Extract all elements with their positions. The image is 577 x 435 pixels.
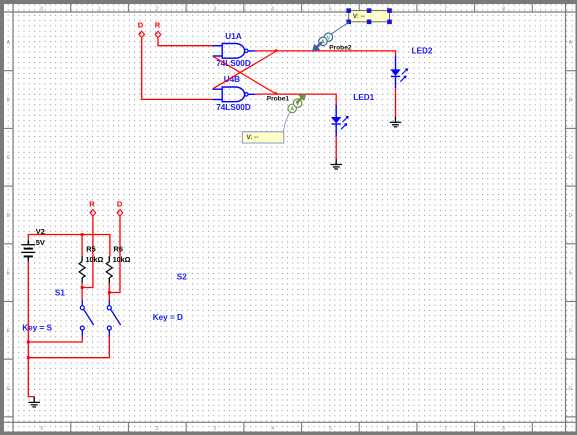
probe Probe1 (voltage readout box) [242, 93, 306, 143]
svg-text:A: A [290, 107, 294, 113]
svg-text:5: 5 [329, 426, 332, 432]
svg-text:Probe2: Probe2 [329, 44, 352, 51]
op NAND gate U4B 74LS00D [213, 75, 255, 112]
svg-text:0: 0 [41, 426, 44, 432]
wire diagonal feedback U1A input to Qbar [213, 56, 278, 94]
svg-text:D: D [138, 21, 144, 30]
ground (main) [28, 397, 40, 407]
svg-text:3: 3 [214, 426, 217, 432]
svg-text:10kΩ: 10kΩ [113, 255, 131, 264]
svg-text:F: F [7, 328, 10, 334]
svg-text:R5: R5 [86, 245, 95, 254]
wire V2 plus to R5/R6 tops [28, 235, 110, 257]
diode LED2 [390, 47, 433, 88]
ground (LED2) [390, 116, 402, 126]
svg-text:R: R [155, 21, 161, 30]
junction R5/R node [81, 286, 84, 289]
wire V2 minus to ground [28, 262, 34, 397]
wire R to U1A input [158, 38, 213, 46]
svg-text:LED2: LED2 [412, 47, 433, 56]
node D bottom connector [117, 199, 123, 216]
svg-text:Key = S: Key = S [22, 324, 52, 333]
svg-text:G: G [568, 386, 572, 392]
node R bottom connector [89, 199, 95, 216]
svg-text:G: G [6, 386, 10, 392]
switch S1 Key = S [22, 288, 93, 337]
svg-text:0: 0 [41, 6, 44, 12]
wire D connector to R6 node [109, 216, 120, 292]
svg-text:10kΩ: 10kΩ [86, 255, 104, 264]
svg-text:6: 6 [387, 426, 390, 432]
resistor R6 10kOhm [106, 245, 130, 284]
svg-text:S2: S2 [177, 272, 187, 281]
svg-text:V: --: V: -- [353, 13, 365, 20]
resistor R5 10kOhm [79, 245, 103, 284]
svg-text:1: 1 [98, 426, 101, 432]
node R top connector [155, 21, 161, 38]
svg-text:5: 5 [329, 6, 332, 12]
wire R5 top lead [81, 235, 83, 257]
node D top connector [138, 21, 145, 38]
svg-text:S1: S1 [55, 288, 65, 297]
svg-text:2: 2 [156, 6, 159, 12]
svg-text:3: 3 [214, 6, 217, 12]
junction R5 top [81, 233, 84, 236]
svg-text:2: 2 [156, 426, 159, 432]
svg-text:1: 1 [98, 6, 101, 12]
wire D to U4B input [142, 38, 213, 100]
svg-text:D: D [6, 213, 10, 219]
wire U1A output to LED2 [255, 51, 396, 57]
wire diagonal feedback Q to U4B input [213, 49, 279, 89]
diode LED1 [331, 93, 375, 136]
wire S2 to ground rail [28, 337, 109, 358]
svg-text:D: D [117, 199, 123, 208]
svg-text:74LS00D: 74LS00D [216, 59, 251, 68]
svg-text:8: 8 [502, 6, 505, 12]
svg-text:4: 4 [271, 426, 274, 432]
svg-text:LED1: LED1 [353, 93, 374, 102]
svg-text:8: 8 [502, 426, 505, 432]
wire LED1 to ground [335, 136, 337, 159]
svg-text:R6: R6 [114, 245, 123, 254]
svg-text:V: --: V: -- [246, 134, 258, 141]
svg-text:F: F [569, 328, 572, 334]
svg-text:74LS00D: 74LS00D [216, 103, 251, 112]
op NAND gate U1A 74LS00D [213, 32, 255, 68]
junction R6/D node [108, 291, 111, 294]
wire U4B output to LED1 [255, 94, 336, 105]
svg-text:R: R [89, 199, 95, 208]
svg-text:7: 7 [444, 6, 447, 12]
wire R5 bottom to S1 [81, 283, 83, 300]
junction S2 return [27, 356, 30, 359]
svg-text:C: C [568, 155, 572, 161]
wire S1 to ground rail [28, 337, 82, 342]
svg-text:U1A: U1A [225, 32, 241, 41]
ground (LED1) [330, 159, 342, 169]
svg-text:U4B: U4B [224, 75, 240, 84]
svg-text:Probe1: Probe1 [267, 96, 290, 103]
wire LED2 to ground [395, 88, 397, 117]
svg-text:5V: 5V [36, 238, 45, 247]
wire R6 bottom to S2 [108, 283, 110, 300]
wire R connector to R5 node [82, 216, 93, 287]
switch S2 Key = D [107, 272, 187, 337]
junction S1 return [27, 341, 30, 344]
svg-text:Key = D: Key = D [153, 313, 183, 322]
svg-text:4: 4 [271, 6, 274, 12]
svg-text:7: 7 [444, 426, 447, 432]
probe Probe2 (selected, voltage readout box) [312, 8, 392, 52]
svg-text:C: C [6, 155, 10, 161]
svg-text:D: D [568, 213, 572, 219]
battery V2 5V [21, 227, 45, 262]
